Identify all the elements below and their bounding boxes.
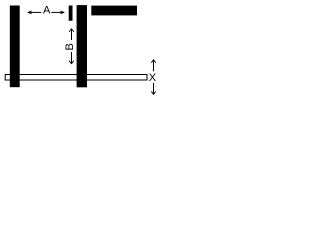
spacer tab small bar bbox=[69, 6, 73, 21]
dimension B upper arrow bbox=[69, 29, 74, 40]
svg-text:A: A bbox=[43, 4, 51, 16]
board bar (bottom outlined rectangle) bbox=[5, 75, 147, 81]
svg-text:X: X bbox=[149, 72, 157, 84]
dimension A right arrow bbox=[51, 11, 64, 14]
svg-text:B: B bbox=[64, 43, 76, 50]
background bbox=[0, 0, 164, 102]
dimension diagram: spacer cross-section with A, B, X dimensions bbox=[0, 0, 164, 102]
dimension B lower arrow bbox=[69, 52, 74, 64]
dimension A left arrow bbox=[28, 11, 41, 14]
left wall bar bbox=[10, 6, 20, 88]
top right horizontal bar bbox=[91, 6, 137, 16]
dimension X upper arrow bbox=[151, 60, 155, 72]
middle wall bar bbox=[77, 5, 87, 87]
dimension X lower arrow bbox=[151, 83, 155, 94]
